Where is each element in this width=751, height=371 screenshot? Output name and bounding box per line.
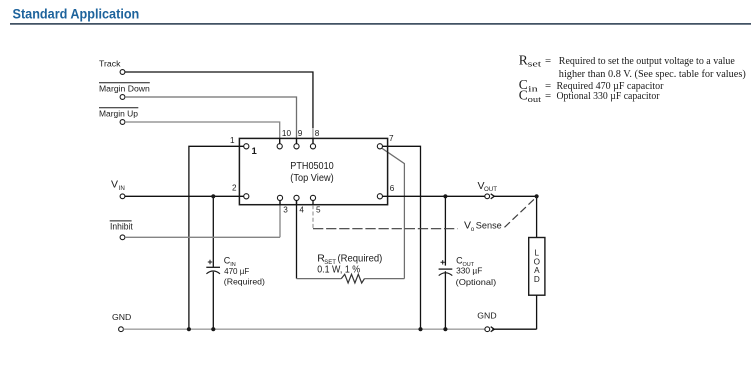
wire COUT down to GND [444,196,446,329]
value note CIN serif text [519,77,664,93]
svg-text:D: D [534,275,540,284]
wire Vo Sense dashed from pin 5 [312,205,314,228]
svg-text:A: A [534,266,540,275]
wire Vo Sense dashed diagonal [505,197,537,227]
capacitor COUT [439,256,497,288]
node Track terminal [99,59,125,75]
svg-text:Sense: Sense [476,221,502,231]
pin 4 [294,195,299,200]
svg-text:(Optional): (Optional) [456,277,497,287]
svg-text:out: out [528,94,542,104]
svg-text:9: 9 [298,129,303,138]
svg-text:5: 5 [316,206,321,215]
svg-text:PTH05010: PTH05010 [290,161,334,172]
wire VIN to pin 2 [125,195,244,197]
svg-text:O: O [534,257,540,266]
svg-text:higher than 0.8 V. (See spec.: higher than 0.8 V. (See spec. table for … [559,68,746,80]
pin 10 [277,144,282,149]
junction COUT gnd [443,327,447,331]
svg-text:(Required): (Required) [338,254,383,265]
node Inhibit terminal [110,221,134,240]
wire pin 7 to GND rail [383,146,421,329]
svg-text:Standard Application: Standard Application [13,6,140,22]
node Vo Sense label [464,220,502,233]
pin 6 [377,194,382,199]
junction pin1 gnd [187,327,191,331]
junction VOUT load node [535,194,539,198]
pin 3 [277,195,282,200]
resistor RSET [297,253,405,284]
svg-text:OUT: OUT [484,186,497,193]
svg-text:L: L [535,248,540,257]
wire VOUT from pin 6 [382,195,484,197]
value note RSET serif text [519,52,746,80]
node Margin Down terminal [99,83,150,100]
svg-text:V: V [111,178,118,190]
load block [529,238,545,296]
wire VOUT terminal to load node [494,196,537,237]
svg-text:Required to set the output vol: Required to set the output voltage to a … [559,55,735,67]
capacitor CIN [206,256,265,287]
svg-text:8: 8 [315,129,320,138]
svg-text:1: 1 [230,136,235,145]
svg-text:IN: IN [119,185,125,192]
svg-text:7: 7 [389,134,394,143]
junction COUT on VOUT [443,194,447,198]
svg-text:330 µF: 330 µF [456,266,482,276]
svg-text:=: = [545,90,551,102]
pin 5 [310,195,315,200]
wire pin 1 to GND rail [189,146,244,329]
svg-text:C: C [519,87,528,102]
heading: Standard Application [10,6,751,24]
junction on VIN wire [211,194,215,198]
svg-text:(Required): (Required) [224,277,265,287]
node Margin Up terminal [99,108,138,125]
svg-text:6: 6 [390,184,395,193]
svg-text:o: o [471,226,475,233]
wire Track to pin 8 [125,72,313,128]
svg-text:1: 1 [252,146,258,157]
node VIN terminal [111,178,125,198]
junction pin7 gnd [418,327,422,331]
wire RSET up to pin 7 [382,148,405,278]
node VOUT terminal [478,180,498,199]
wire VIN junction down through CIN to GND [212,196,214,329]
pin 7 [377,144,382,149]
pin 9 [294,144,299,149]
wire GND rail [123,328,485,330]
svg-text:(Top View): (Top View) [290,173,333,184]
svg-text:10: 10 [282,129,292,138]
svg-text:=: = [545,55,551,67]
wire Margin Down to pin 9 [125,97,297,144]
svg-text:3: 3 [283,206,288,215]
svg-text:2: 2 [232,184,237,193]
svg-text:0.1 W, 1 %: 0.1 W, 1 % [317,265,360,276]
value note COUT serif text [519,87,660,103]
node GND right terminal [477,310,496,331]
svg-text:4: 4 [299,206,304,215]
svg-text:set: set [528,59,542,69]
svg-text:Track: Track [99,59,121,69]
svg-text:R: R [519,52,528,67]
wire GND to load [492,295,536,329]
svg-text:Margin Up: Margin Up [99,109,138,119]
IC U1 PTH05010 [239,138,387,204]
svg-text:470 µF: 470 µF [224,266,249,276]
pin 2 [244,194,249,199]
pin 8 [310,144,315,149]
svg-text:in: in [528,84,539,94]
node GND left terminal [112,312,131,332]
junction CIN gnd [211,327,215,331]
pin ticks [280,138,313,204]
svg-text:Inhibit: Inhibit [110,222,133,232]
wire Inhibit to pin 3 [125,200,280,237]
svg-text:Optional 330 µF capacitor: Optional 330 µF capacitor [557,90,660,102]
wire pin 4 down to RSET [296,200,298,278]
svg-text:Margin Down: Margin Down [99,84,150,94]
svg-text:GND: GND [112,312,131,322]
svg-text:GND: GND [477,310,496,320]
pin 1 [244,144,249,149]
wire Margin Up to pin 10 [125,122,280,144]
